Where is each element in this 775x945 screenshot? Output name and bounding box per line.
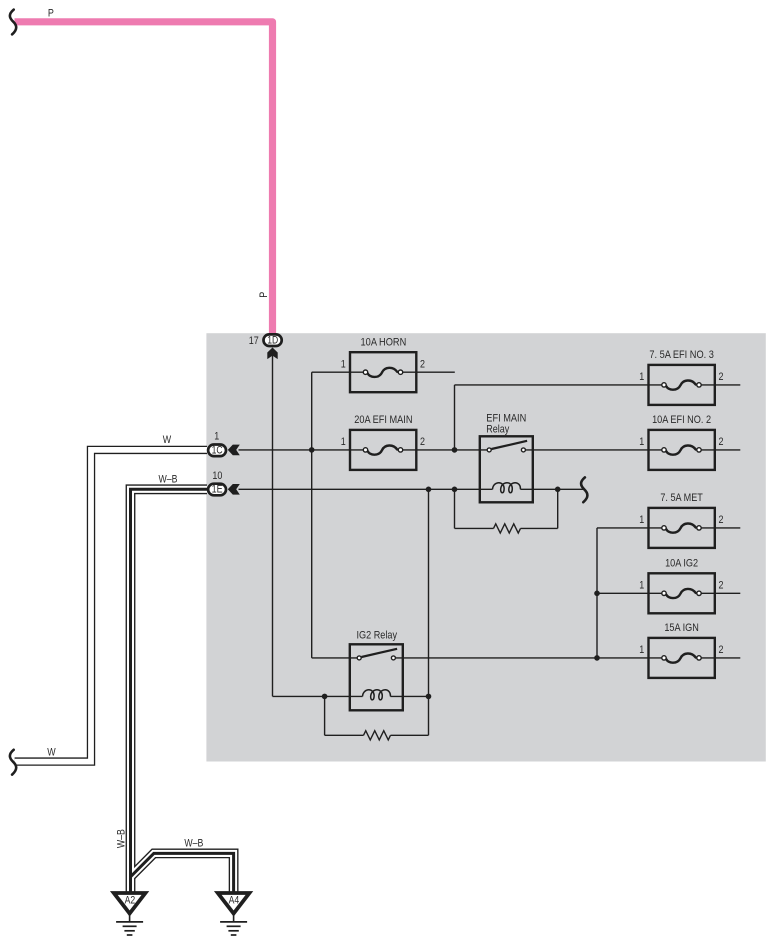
pin 10 arrow (left)	[228, 484, 240, 495]
svg-text:1: 1	[341, 358, 346, 370]
node junction IG2 coil right	[426, 694, 432, 700]
connector 1C	[208, 430, 240, 456]
fuse 10A EFI NO.2	[649, 430, 715, 470]
fuse 10A HORN	[350, 352, 416, 392]
svg-text:1E: 1E	[212, 484, 223, 496]
wire: EFI MAIN fuse to relay switch	[401, 449, 490, 451]
svg-text:IG2 Relay: IG2 Relay	[357, 630, 398, 642]
relay IG2 (U: IG2 Relay)	[350, 644, 403, 710]
wire: vertical x312 horn to IG2 relay	[311, 372, 313, 658]
wire: 1E row to relay coil	[239, 488, 493, 490]
wire P (pink)	[15, 22, 273, 334]
wire: 1C row to EFI MAIN fuse	[239, 449, 366, 451]
wire: horn fuse pin1 to vertical	[312, 371, 366, 373]
wire: IGN row / IG2 relay switch	[312, 657, 359, 659]
svg-text:1: 1	[639, 644, 644, 656]
svg-text:2: 2	[719, 371, 724, 383]
connector 1D	[249, 334, 282, 359]
svg-text:15A IGN: 15A IGN	[664, 622, 699, 634]
svg-text:20A EFI MAIN: 20A EFI MAIN	[354, 414, 412, 426]
wire: vertical x454 NO.3 to switch row	[454, 385, 456, 450]
pin 17 arrow (up)	[267, 348, 277, 360]
svg-text:1: 1	[639, 514, 644, 526]
svg-text:1: 1	[639, 580, 644, 592]
wire: relay coil to break	[520, 488, 583, 490]
svg-text:2: 2	[719, 580, 724, 592]
svg-text:10A EFI NO. 2: 10A EFI NO. 2	[652, 414, 711, 426]
wire W-B branch to A4	[131, 853, 234, 891]
relay EFI MAIN (U: EFI MAIN Relay)	[480, 436, 533, 502]
svg-text:1D: 1D	[267, 334, 278, 346]
node junction 1E row / x558	[555, 487, 561, 493]
svg-text:2: 2	[719, 436, 724, 448]
svg-text:W–B: W–B	[159, 474, 178, 486]
node break symbol (1E row right)	[581, 477, 587, 502]
resistor (EFI MAIN relay circuit)	[494, 524, 521, 533]
svg-text:1: 1	[214, 430, 219, 442]
svg-text:Relay: Relay	[486, 424, 510, 436]
svg-text:1C: 1C	[212, 445, 223, 457]
fuse 7.5A MET	[649, 508, 715, 548]
svg-text:2: 2	[719, 514, 724, 526]
fuse 10A IG2	[649, 573, 715, 613]
node junction IG2 fuse row / x597	[594, 591, 600, 597]
ground A2	[114, 893, 146, 935]
wire: EFI NO.3 row	[455, 384, 664, 386]
svg-text:W–B: W–B	[115, 829, 127, 848]
wire: MET row	[597, 527, 664, 529]
svg-text:2: 2	[420, 358, 425, 370]
resistor (IG2 relay circuit)	[364, 731, 391, 740]
node junction 1E row / x428	[426, 487, 432, 493]
wire: EFI NO.3 pin2	[699, 384, 740, 386]
wire: IG2 resistor loop left	[324, 696, 326, 735]
svg-text:W: W	[47, 747, 55, 759]
svg-text:7. 5A EFI NO. 3: 7. 5A EFI NO. 3	[649, 349, 714, 361]
coil L (EFI MAIN relay)	[493, 483, 521, 493]
node junction 1C row / x312	[309, 447, 315, 453]
internal wires	[239, 356, 741, 736]
svg-text:1: 1	[639, 436, 644, 448]
svg-text:10A IG2: 10A IG2	[665, 558, 698, 570]
wire: EFI resistor loop right	[557, 489, 559, 528]
wire: vertical x428 1E row to IG2 resistor	[428, 489, 430, 735]
svg-text:10A HORN: 10A HORN	[361, 336, 407, 348]
pin 1 arrow (left)	[228, 445, 240, 456]
connector 1E	[208, 470, 240, 496]
svg-text:A2: A2	[125, 895, 136, 907]
svg-text:W: W	[163, 434, 171, 446]
node break symbol bottom-left	[10, 750, 16, 775]
svg-text:7. 5A MET: 7. 5A MET	[660, 492, 703, 504]
svg-text:17: 17	[249, 335, 259, 347]
wire: 1D vertical to IG2 coil	[272, 356, 274, 697]
fuse 15A IGN	[649, 638, 715, 678]
svg-text:2: 2	[719, 644, 724, 656]
svg-text:1: 1	[341, 436, 346, 448]
wire: vertical x597 MET to IGN	[596, 528, 598, 658]
junction block (gray panel)	[206, 333, 765, 761]
svg-text:A4: A4	[229, 895, 240, 907]
wire: EFI NO.2 pin2	[699, 449, 740, 451]
fuse 7.5A EFI NO.3	[649, 365, 715, 405]
wire: relay switch to EFI NO.2 fuse	[523, 449, 664, 451]
node junction IG2 coil left	[322, 694, 328, 700]
fuse 20A EFI MAIN	[350, 430, 416, 470]
svg-text:W–B: W–B	[184, 837, 203, 849]
wire: EFI resistor loop left	[454, 489, 456, 528]
ground A4	[218, 893, 250, 935]
node break symbol top-left	[10, 10, 16, 35]
junction dots	[309, 447, 600, 699]
svg-text:P: P	[48, 7, 54, 19]
svg-text:2: 2	[420, 436, 425, 448]
svg-text:1: 1	[639, 371, 644, 383]
svg-text:P: P	[258, 292, 270, 298]
wire W-B (1E to ground A2)	[131, 489, 208, 891]
node junction switch row / x454	[452, 447, 458, 453]
wire: horn fuse pin2 stub	[401, 371, 455, 373]
wire: IG2 fuse row	[597, 592, 664, 594]
coil L (IG2 relay)	[363, 690, 391, 700]
node junction IGN row / x597	[594, 655, 600, 661]
wire W (1C to bottom-left, white wire)	[15, 450, 207, 762]
svg-text:10: 10	[212, 470, 222, 482]
node junction 1E row / x454	[452, 487, 458, 493]
